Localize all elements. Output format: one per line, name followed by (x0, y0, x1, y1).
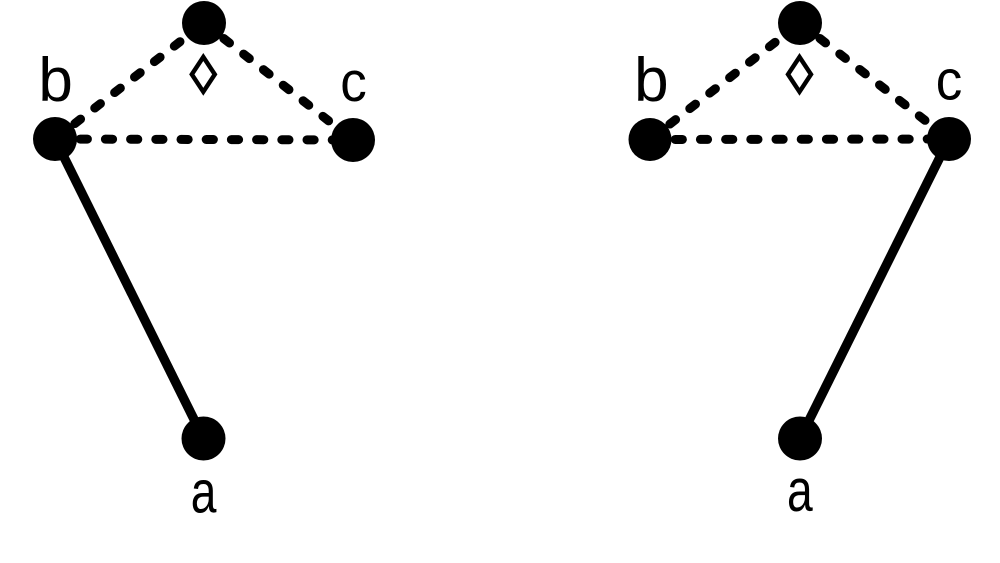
right graph: edge top-b (dashed) (650, 23, 800, 140)
right graph: node b (629, 118, 672, 161)
left graph: edge b-c (dashed) (55, 139, 353, 140)
right graph: edge b-c (dashed) (650, 135, 949, 145)
svg-text:b: b (634, 46, 668, 115)
left graph: node a (182, 417, 226, 461)
svg-text:c: c (936, 48, 963, 112)
svg-text:c: c (340, 49, 367, 113)
right graph: node c (927, 117, 971, 161)
right graph: edge c-a (solid) (800, 139, 949, 439)
svg-text:a: a (787, 459, 813, 525)
left graph: node b (33, 117, 77, 161)
right graph: edge top-c (dashed) (800, 23, 949, 139)
left graph: diamond marker (192, 57, 215, 92)
right graph: node a (778, 417, 822, 461)
left graph: node c (331, 118, 375, 162)
left graph: edge top-b (dashed) (55, 23, 204, 139)
svg-text:a: a (191, 460, 217, 526)
left graph: edge top-c (dashed) (204, 23, 353, 140)
svg-text:b: b (38, 46, 72, 115)
left graph: edge b-a (solid) (55, 139, 204, 439)
right graph: node top (778, 1, 822, 45)
left graph: node top (182, 1, 226, 45)
right graph: diamond marker (788, 57, 811, 92)
